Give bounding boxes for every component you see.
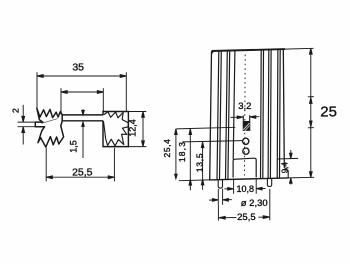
svg-text:25: 25 xyxy=(320,104,337,121)
svg-text:2: 2 xyxy=(11,108,21,113)
bottom edge extension left xyxy=(179,179,210,182)
right fin cluster box xyxy=(103,112,128,147)
dim 25,5 bottom right view xyxy=(218,189,269,221)
dim 35 top xyxy=(37,72,126,111)
svg-text:1,5: 1,5 xyxy=(69,140,79,153)
bottom notch xyxy=(233,158,256,177)
wire web bottom xyxy=(62,120,103,122)
dim 25 full height right xyxy=(308,48,314,177)
splat inner fin line xyxy=(42,119,58,124)
hole circle 1 xyxy=(243,138,249,144)
svg-text:10,8: 10,8 xyxy=(237,184,255,194)
centerline dash-dot xyxy=(244,55,247,176)
arrow 18,3 bottom xyxy=(189,179,192,185)
arrow 25,4 top xyxy=(175,129,178,135)
bottom edge extension right xyxy=(289,176,315,179)
extension line slot bottom xyxy=(176,127,235,129)
svg-text:18,3: 18,3 xyxy=(177,141,187,162)
svg-text:3,2: 3,2 xyxy=(238,101,251,112)
body top edge xyxy=(212,49,286,51)
svg-text:25,5: 25,5 xyxy=(237,212,256,223)
svg-text:9,4: 9,4 xyxy=(281,162,290,174)
dim 12,4 right cluster height xyxy=(128,112,146,147)
body left edge xyxy=(210,51,212,180)
dim 1,5 web thickness xyxy=(82,109,85,158)
arrow 18,3 top xyxy=(189,129,192,135)
svg-text:13,5: 13,5 xyxy=(194,153,204,173)
top edge extension for dim 25 xyxy=(285,47,314,50)
body bottom edge xyxy=(210,178,289,180)
dim 2 left fin tip xyxy=(18,105,36,145)
dim line 13,5 xyxy=(202,142,204,190)
svg-text:12,4: 12,4 xyxy=(128,119,138,137)
left stack dims 25,4 / 18,3 / 13,5 xyxy=(175,127,243,190)
right cluster inner fins splat xyxy=(103,112,128,146)
hole circle 2 xyxy=(243,148,249,154)
body right edge xyxy=(283,49,284,168)
dim 10,8 notch xyxy=(224,178,265,194)
slot hatch xyxy=(243,121,250,131)
top-left chamfer xyxy=(211,51,214,54)
arrow 25,4 bottom xyxy=(175,174,178,179)
dim 3,2 slot xyxy=(231,116,260,119)
svg-text:35: 35 xyxy=(72,62,84,74)
left fins xyxy=(217,50,235,179)
extension line hole 1 xyxy=(182,141,242,142)
left pin xyxy=(218,180,222,188)
dim line 25,4 xyxy=(175,129,177,179)
dim 25,5 bottom xyxy=(46,147,114,181)
dim ø 2,30 pin xyxy=(209,189,232,205)
dim line 18,3 xyxy=(189,129,191,191)
dim 9,4 right xyxy=(277,150,298,185)
svg-text:25,4: 25,4 xyxy=(162,139,172,158)
arrow 13,5 bottom xyxy=(201,179,204,185)
wire web top xyxy=(62,114,103,116)
svg-text:ø 2,30: ø 2,30 xyxy=(241,198,268,209)
arrow 13,5 top xyxy=(201,142,204,148)
left fin cluster splat xyxy=(35,108,63,147)
inner unlabeled dim xyxy=(61,88,104,114)
right fins xyxy=(261,49,281,178)
slot walls xyxy=(242,115,244,130)
right pin xyxy=(267,179,271,187)
right foot step xyxy=(284,168,288,178)
svg-text:25,5: 25,5 xyxy=(72,167,93,179)
